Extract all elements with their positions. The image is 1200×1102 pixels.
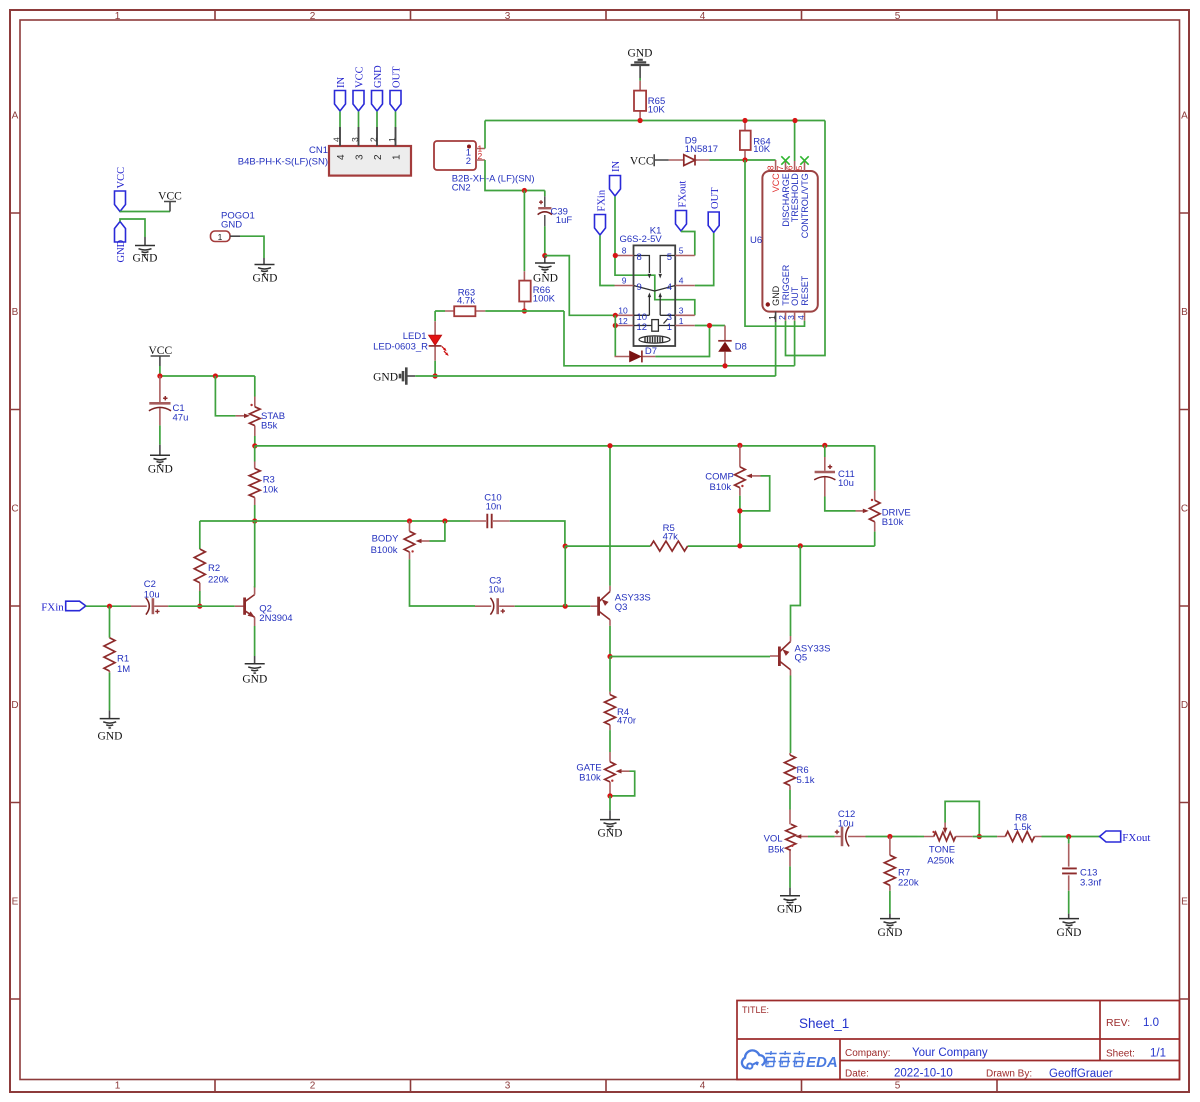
svg-text:B4B-PH-K-S(LF)(SN): B4B-PH-K-S(LF)(SN) xyxy=(238,157,328,168)
svg-text:U6: U6 xyxy=(750,235,762,246)
wire xyxy=(825,497,856,511)
wire xyxy=(564,546,566,606)
K1 pin 9 xyxy=(615,276,642,293)
capacitor C2 10u xyxy=(131,579,168,615)
svg-text:12: 12 xyxy=(637,322,648,333)
svg-text:D: D xyxy=(1181,700,1188,711)
svg-text:REV:: REV: xyxy=(1106,1017,1130,1029)
wire main rail xyxy=(255,445,875,447)
svg-text:220k: 220k xyxy=(208,575,229,586)
svg-text:OUT: OUT xyxy=(710,187,721,209)
svg-text:Drawn By:: Drawn By: xyxy=(986,1069,1032,1080)
junction xyxy=(197,604,202,609)
svg-text:GND: GND xyxy=(148,464,173,476)
svg-text:GND: GND xyxy=(242,674,267,686)
svg-text:1.5k: 1.5k xyxy=(1013,822,1031,833)
resistor R66 100K xyxy=(519,191,555,312)
svg-text:CN1: CN1 xyxy=(309,145,328,156)
port FXin (top) xyxy=(595,189,608,235)
svg-text:R2: R2 xyxy=(208,563,220,574)
junction xyxy=(977,834,982,839)
svg-text:1: 1 xyxy=(679,316,684,326)
junction xyxy=(1066,834,1071,839)
port GND (CN1 pin 2) xyxy=(372,65,385,111)
wire VCC rail (555) xyxy=(485,120,825,122)
wire xyxy=(874,532,876,547)
wire xyxy=(434,361,436,376)
wire xyxy=(254,436,256,446)
capacitor C10 10n xyxy=(470,493,510,529)
svg-text:3: 3 xyxy=(505,1081,511,1092)
svg-text:10k: 10k xyxy=(263,485,279,496)
svg-text:10K: 10K xyxy=(648,105,666,116)
wire xyxy=(435,310,564,312)
resistor R2 220k xyxy=(194,521,229,591)
wire bias rail xyxy=(200,521,565,546)
svg-text:GND: GND xyxy=(116,239,127,262)
junction xyxy=(107,604,112,609)
wire xyxy=(1068,891,1070,914)
wire xyxy=(739,496,741,546)
svg-text:OUT: OUT xyxy=(392,66,403,88)
svg-text:GND: GND xyxy=(1057,927,1082,939)
junction xyxy=(542,253,547,258)
svg-text:5.1k: 5.1k xyxy=(797,775,815,786)
junction xyxy=(252,443,257,448)
svg-text:TRESHOLD: TRESHOLD xyxy=(790,173,800,223)
wire xyxy=(120,211,170,214)
ground (R1) xyxy=(98,710,123,742)
wire xyxy=(159,425,161,444)
wire Q3 bottom xyxy=(609,626,611,657)
wire xyxy=(639,78,641,81)
ground (VOL) xyxy=(777,888,802,916)
svg-text:CN2: CN2 xyxy=(452,183,471,194)
svg-text:TITLE:: TITLE: xyxy=(742,1005,769,1015)
junction xyxy=(522,188,527,193)
junction xyxy=(707,323,712,328)
svg-text:10n: 10n xyxy=(486,502,502,513)
svg-text:220k: 220k xyxy=(898,878,919,889)
power flag VCC xyxy=(158,191,182,212)
svg-text:RESET: RESET xyxy=(800,275,810,306)
port FXin xyxy=(41,601,86,613)
wire xyxy=(160,366,255,376)
svg-text:GND: GND xyxy=(133,253,158,265)
wire xyxy=(544,226,546,255)
svg-text:GND: GND xyxy=(628,48,653,60)
svg-text:2: 2 xyxy=(373,154,384,160)
svg-text:4: 4 xyxy=(667,282,672,293)
svg-text:COMP: COMP xyxy=(705,472,734,483)
ground (Q2) xyxy=(242,656,267,686)
resistor R4 470r xyxy=(605,657,637,731)
svg-text:EDA: EDA xyxy=(806,1054,838,1071)
resistor R65 10K xyxy=(634,81,665,121)
junction xyxy=(638,118,643,123)
wire pin6 to rail xyxy=(794,121,796,162)
svg-text:G6S-2-5V: G6S-2-5V xyxy=(620,234,663,245)
IC U6 (555) xyxy=(750,171,818,312)
junction xyxy=(607,793,612,798)
U6 pin 7 DISCHARGE xyxy=(775,161,791,227)
wire xyxy=(866,836,918,838)
wire xyxy=(789,866,791,887)
svg-text:D8: D8 xyxy=(735,342,747,353)
svg-text:3.3nf: 3.3nf xyxy=(1080,878,1101,889)
svg-text:D7: D7 xyxy=(645,346,657,357)
svg-text:VCC: VCC xyxy=(771,173,781,193)
svg-text:GeoffGrauer: GeoffGrauer xyxy=(1049,1068,1113,1080)
svg-text:GND: GND xyxy=(771,285,781,306)
wire K1 pin12 to D7 xyxy=(614,315,616,356)
diode D7 xyxy=(615,346,658,362)
junction xyxy=(613,313,618,318)
transistor Q2 2N3904 xyxy=(235,586,293,626)
wire pin2 TRIGGER loop xyxy=(786,121,826,356)
svg-text:A250k: A250k xyxy=(927,856,954,867)
port OUT xyxy=(708,187,721,233)
svg-text:Your Company: Your Company xyxy=(912,1047,988,1059)
junction xyxy=(722,363,727,368)
svg-text:FXin: FXin xyxy=(596,189,607,211)
svg-text:8: 8 xyxy=(765,165,775,170)
wire xyxy=(168,605,235,607)
svg-text:470r: 470r xyxy=(617,716,636,727)
svg-text:B10k: B10k xyxy=(579,773,601,784)
svg-text:1: 1 xyxy=(392,154,403,160)
port FXout (top) xyxy=(676,181,689,231)
K1 pin 12 xyxy=(615,316,648,333)
U6 pin 8 VCC xyxy=(765,160,781,192)
diode D8 xyxy=(718,326,747,366)
wire xyxy=(339,112,341,128)
svg-text:3: 3 xyxy=(505,11,511,22)
svg-text:5: 5 xyxy=(794,165,804,170)
wire R5 rail xyxy=(565,545,875,547)
junction xyxy=(613,253,618,258)
junction xyxy=(607,443,612,448)
ground (R7) xyxy=(878,914,903,939)
K1 pin 4 xyxy=(667,276,695,293)
junction xyxy=(522,308,527,313)
svg-text:1.0: 1.0 xyxy=(1143,1017,1159,1029)
wire xyxy=(120,219,145,237)
K1 pin 8 xyxy=(615,246,642,263)
K1 pin 10 xyxy=(615,306,648,323)
junction xyxy=(737,508,742,513)
capacitor C12 10u xyxy=(835,809,866,846)
junction xyxy=(792,118,797,123)
svg-text:GND: GND xyxy=(373,372,398,384)
capacitor C13 3.3nf xyxy=(1062,837,1101,891)
svg-text:IN: IN xyxy=(611,161,622,172)
resistor R6 5.1k xyxy=(785,676,815,791)
potentiometer TONE A250k xyxy=(918,801,980,866)
wire CN2.1 to rail xyxy=(484,121,486,149)
junction xyxy=(563,544,568,549)
wire Q2 emitter xyxy=(254,626,256,656)
junction xyxy=(798,543,803,548)
junction xyxy=(433,373,438,378)
relay K1 G6S-2-5V xyxy=(620,226,676,347)
capacitor C1 47u xyxy=(149,376,188,425)
connector CN1 B4B-PH-K-S xyxy=(238,127,411,176)
wire xyxy=(1042,836,1100,838)
svg-text:GND: GND xyxy=(373,65,384,88)
port IN (CN1 pin 4) xyxy=(335,77,348,111)
svg-text:2: 2 xyxy=(478,151,483,161)
svg-text:FXout: FXout xyxy=(677,181,688,208)
svg-text:3: 3 xyxy=(355,154,366,160)
svg-text:10u: 10u xyxy=(838,478,854,489)
svg-text:4: 4 xyxy=(700,1081,706,1092)
svg-text:10u: 10u xyxy=(838,819,854,830)
wire CN2.2 xyxy=(485,160,545,191)
LED LED1 xyxy=(373,311,450,361)
ground (POGO1) xyxy=(253,258,278,285)
svg-text:Company:: Company: xyxy=(845,1048,891,1059)
junction xyxy=(742,157,747,162)
ground flag (top, R65) xyxy=(628,48,653,79)
junction xyxy=(887,834,892,839)
svg-text:Date:: Date: xyxy=(845,1069,869,1080)
wire C39 to K1.10 xyxy=(545,256,615,316)
svg-text:IN: IN xyxy=(336,77,347,88)
wire xyxy=(889,891,891,914)
svg-text:12: 12 xyxy=(618,316,628,326)
svg-text:4: 4 xyxy=(679,276,684,286)
wire FXout to K1.5 xyxy=(681,232,695,256)
svg-text:LED1: LED1 xyxy=(403,331,427,342)
U6 pin 2 TRIGGER xyxy=(777,264,791,320)
EasyEDA logo xyxy=(742,1050,838,1071)
svg-text:2: 2 xyxy=(369,137,379,142)
svg-text:4: 4 xyxy=(700,11,706,22)
svg-text:5: 5 xyxy=(679,246,684,256)
wire xyxy=(199,591,201,606)
svg-text:5: 5 xyxy=(895,1081,901,1092)
power flag VCC (D9) xyxy=(630,154,669,167)
svg-text:C: C xyxy=(1181,504,1188,515)
capacitor C3 10u xyxy=(475,576,515,615)
junction xyxy=(157,373,162,378)
capacitor C11 10u xyxy=(814,445,855,496)
port VCC (CN1 pin 3) xyxy=(353,66,366,111)
svg-text:B: B xyxy=(1181,307,1188,318)
svg-text:5: 5 xyxy=(895,11,901,22)
svg-text:FXout: FXout xyxy=(1122,832,1150,844)
svg-text:2: 2 xyxy=(310,1081,316,1092)
svg-text:10: 10 xyxy=(637,312,648,323)
svg-text:B10k: B10k xyxy=(882,517,904,528)
svg-text:TONE: TONE xyxy=(929,845,955,856)
svg-text:E: E xyxy=(1181,897,1188,908)
svg-text:1: 1 xyxy=(667,322,672,333)
svg-text:BODY: BODY xyxy=(372,534,400,545)
svg-text:8: 8 xyxy=(637,252,642,263)
svg-text:10K: 10K xyxy=(753,144,771,155)
ground flag (LED1) xyxy=(373,367,415,384)
wire D7 to K1.1 node xyxy=(655,326,725,357)
wire xyxy=(973,836,997,838)
svg-text:A: A xyxy=(12,111,19,122)
svg-text:B100k: B100k xyxy=(371,545,398,556)
wire Q2 collector xyxy=(254,521,256,588)
svg-text:3: 3 xyxy=(786,315,796,320)
svg-text:1: 1 xyxy=(115,11,121,22)
wire xyxy=(515,605,591,607)
potentiometer DRIVE B10k xyxy=(856,445,911,531)
power flag VCC (C1) xyxy=(148,345,172,366)
svg-text:2N3904: 2N3904 xyxy=(259,613,292,624)
ground (GATE) xyxy=(598,810,623,839)
U6 pin 3 OUT xyxy=(786,286,800,320)
svg-text:B: B xyxy=(12,307,19,318)
svg-text:10u: 10u xyxy=(488,585,504,596)
U6 pin 1 GND xyxy=(767,285,781,322)
K1 pin 5 xyxy=(667,246,695,263)
svg-text:B10k: B10k xyxy=(710,482,732,493)
connector POGO1 xyxy=(211,211,255,243)
potentiometer VOL B5k xyxy=(764,810,835,867)
svg-text:GND: GND xyxy=(533,273,558,285)
capacitor C39 1uF xyxy=(538,191,573,227)
svg-text:Q5: Q5 xyxy=(795,653,808,664)
svg-text:Sheet_1: Sheet_1 xyxy=(799,1016,849,1031)
svg-text:2: 2 xyxy=(310,11,316,22)
svg-text:A: A xyxy=(1181,111,1188,122)
connector CN2 B2B-XH-A xyxy=(434,141,535,194)
svg-text:Q3: Q3 xyxy=(615,602,628,613)
svg-text:1/1: 1/1 xyxy=(1150,1048,1166,1060)
svg-text:VCC: VCC xyxy=(116,167,127,189)
svg-text:E: E xyxy=(12,897,19,908)
wire xyxy=(240,236,264,258)
title block xyxy=(737,1001,1180,1081)
wire IN to K1.8 and K1.3 xyxy=(615,197,695,316)
U6 pin 6 TRESHOLD xyxy=(784,161,800,222)
wire xyxy=(395,112,397,128)
wire xyxy=(709,159,775,161)
ground (C13) xyxy=(1057,914,1082,939)
resistor R3 10k xyxy=(249,446,278,521)
svg-text:3: 3 xyxy=(679,306,684,316)
junction xyxy=(607,654,612,659)
svg-text:2022-10-10: 2022-10-10 xyxy=(894,1068,953,1080)
junction xyxy=(252,518,257,523)
wire xyxy=(109,673,111,711)
wire GND row to U6 pin1 xyxy=(415,322,775,376)
wire xyxy=(358,112,360,128)
svg-text:C2: C2 xyxy=(144,579,156,590)
svg-text:3: 3 xyxy=(350,137,360,142)
junction xyxy=(407,518,412,523)
svg-text:VCC: VCC xyxy=(630,156,654,168)
port FXout xyxy=(1100,831,1151,844)
svg-text:1: 1 xyxy=(218,232,223,242)
svg-text:C: C xyxy=(11,504,18,515)
wire xyxy=(789,790,791,810)
U6 pin 4 RESET xyxy=(796,275,810,320)
resistor R64 10K xyxy=(740,121,771,161)
svg-text:B5k: B5k xyxy=(261,421,278,432)
svg-text:GND: GND xyxy=(253,273,278,285)
svg-text:4: 4 xyxy=(796,315,806,320)
resistor R8 1.5k xyxy=(997,813,1041,842)
svg-text:9: 9 xyxy=(637,282,642,293)
port OUT (CN1 pin 1) xyxy=(390,66,403,111)
svg-text:1: 1 xyxy=(767,315,777,320)
svg-text:2: 2 xyxy=(466,156,471,167)
wire FXin to K1.9 xyxy=(600,236,615,286)
wire xyxy=(86,605,131,607)
junction xyxy=(737,443,742,448)
svg-text:1: 1 xyxy=(387,137,397,142)
ground (C39) xyxy=(533,256,558,285)
svg-text:FXin: FXin xyxy=(41,602,64,614)
svg-text:LED-0603_R: LED-0603_R xyxy=(373,342,428,353)
svg-text:9: 9 xyxy=(622,276,627,286)
svg-text:GND: GND xyxy=(98,731,123,743)
port VCC (top-left) xyxy=(115,167,128,212)
svg-text:4: 4 xyxy=(332,137,342,142)
svg-text:100K: 100K xyxy=(533,294,556,305)
svg-text:47k: 47k xyxy=(663,532,679,543)
svg-text:3: 3 xyxy=(667,312,672,323)
svg-text:B5k: B5k xyxy=(768,845,785,856)
junction xyxy=(613,323,618,328)
svg-text:5: 5 xyxy=(667,252,672,263)
K1 pin 3 xyxy=(667,306,695,323)
svg-text:1N5817: 1N5817 xyxy=(685,144,718,155)
resistor R5 47k xyxy=(651,523,688,551)
wire xyxy=(609,730,611,752)
ground (C1) xyxy=(148,445,173,476)
resistor R1 1M xyxy=(104,606,130,675)
svg-text:1M: 1M xyxy=(117,664,130,675)
svg-text:1uF: 1uF xyxy=(556,215,573,226)
wire pin4 RESET to VCC node xyxy=(745,160,805,326)
svg-text:D: D xyxy=(11,700,18,711)
diode D9 1N5817 xyxy=(669,136,718,166)
wire to Q5 xyxy=(791,546,801,636)
svg-text:GND: GND xyxy=(878,927,903,939)
port IN xyxy=(610,161,623,196)
wire xyxy=(609,796,611,810)
wire base row Q5 xyxy=(610,656,770,658)
no-connect X pin7 xyxy=(781,156,789,164)
resistor R63 4.7k xyxy=(445,288,485,317)
svg-text:GND: GND xyxy=(598,828,623,840)
svg-text:47u: 47u xyxy=(173,413,189,424)
svg-text:VOL: VOL xyxy=(764,834,783,845)
wire xyxy=(410,559,476,606)
potentiometer COMP B10k xyxy=(705,445,769,511)
svg-text:GND: GND xyxy=(221,220,242,231)
potentiometer STAB B5k xyxy=(215,376,285,436)
svg-text:6: 6 xyxy=(784,165,794,170)
no-connect X pin5 xyxy=(800,156,808,164)
wire R66 row down to OUT row xyxy=(564,311,795,366)
svg-text:8: 8 xyxy=(622,246,627,256)
svg-text:VCC: VCC xyxy=(355,66,366,88)
wire OUT to K1.4 xyxy=(695,233,714,286)
transistor Q3 ASY33S xyxy=(590,586,650,626)
potentiometer BODY B100k xyxy=(371,521,445,559)
svg-text:GND: GND xyxy=(777,904,802,916)
U6 pin 5 CONTROL/VTG xyxy=(794,161,810,238)
